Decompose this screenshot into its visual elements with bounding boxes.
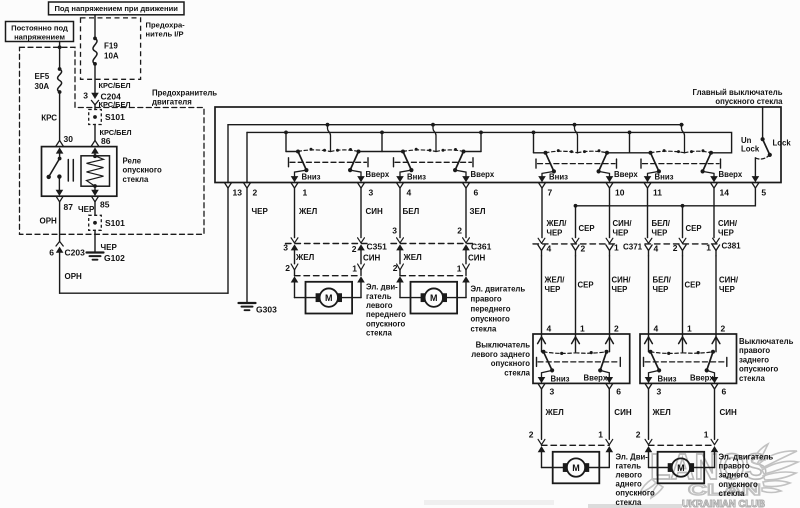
wire КРС/БЕЛ S101 to relay pin 86 <box>95 125 132 147</box>
svg-text:Эл. двигатель: Эл. двигатель <box>719 452 774 461</box>
label: выключатель левого заднего опускного стекла <box>471 341 530 378</box>
connector arrow relay pin 85 <box>91 196 109 209</box>
main switch pin 7 <box>538 183 552 198</box>
svg-text:10A: 10A <box>104 52 119 61</box>
main switch box: главный выключатель опускного стекла <box>215 107 781 183</box>
svg-text:опускного: опускного <box>739 365 778 374</box>
svg-text:левого: левого <box>616 471 643 480</box>
svg-text:S101: S101 <box>105 218 125 228</box>
fuse F19 10A <box>93 37 97 66</box>
svg-text:ОРН: ОРН <box>65 272 83 281</box>
connector C204 pin 3 <box>83 91 121 105</box>
connector C381 <box>645 238 741 256</box>
svg-text:Выключатель: Выключатель <box>739 337 794 346</box>
lock switch <box>752 107 772 182</box>
svg-text:ЧЕР: ЧЕР <box>547 229 563 238</box>
svg-text:двигателя: двигателя <box>152 98 192 107</box>
svg-text:стекла: стекла <box>504 368 530 377</box>
svg-text:1: 1 <box>704 430 709 440</box>
svg-text:гатель: гатель <box>616 461 642 470</box>
svg-text:правого: правого <box>739 346 770 355</box>
svg-text:СИН: СИН <box>363 254 381 263</box>
ground G303 <box>239 303 278 315</box>
svg-text:C351: C351 <box>367 241 388 251</box>
wire ЖЕЛ pin 1 to C351 <box>295 188 318 237</box>
wire СИН/ЧЕР pin 10 to C371 <box>610 188 633 237</box>
svg-text:Вниз: Вниз <box>658 375 677 384</box>
watermark club logo <box>424 444 798 508</box>
ground stub row3 between switch C and D contacts <box>607 132 651 152</box>
label: Предохранитель двигателя <box>152 88 217 106</box>
svg-text:86: 86 <box>101 136 111 146</box>
svg-text:ЗЕЛ: ЗЕЛ <box>470 207 486 216</box>
main switch pin 3 <box>357 183 373 198</box>
svg-text:10: 10 <box>615 188 625 198</box>
ground G102 <box>87 253 126 264</box>
svg-text:Предохранитель: Предохранитель <box>152 88 217 97</box>
relay coil <box>81 147 110 196</box>
svg-text:стекла: стекла <box>739 374 765 383</box>
left front motor connector pins 2/1 <box>285 263 365 282</box>
wire БЕЛ/ЧЕР pin 11 to C381 <box>648 188 671 237</box>
svg-text:стекла: стекла <box>719 489 745 498</box>
svg-text:C381: C381 <box>722 241 742 250</box>
label Un Lock <box>741 136 760 153</box>
svg-text:КРС/БЕЛ: КРС/БЕЛ <box>99 81 131 90</box>
svg-text:87: 87 <box>64 202 74 212</box>
main switch pin 11 <box>644 183 662 198</box>
svg-text:СИН: СИН <box>720 408 738 417</box>
label Lock <box>773 138 792 147</box>
label box: Постоянно под напряжением <box>6 22 74 42</box>
wire ЖЕЛ/ЧЕР pin 7 to C371 <box>542 188 567 237</box>
ground stub row3 to switch B right contact <box>464 132 482 151</box>
svg-text:ЧЕР: ЧЕР <box>652 229 668 238</box>
motor M left front: эл. двигатель левого переднего опускного стекла <box>295 282 362 314</box>
svg-text:СИН/: СИН/ <box>719 275 739 284</box>
wire pin 13 inside box <box>227 125 229 183</box>
svg-text:БЕЛ: БЕЛ <box>403 207 420 216</box>
main switch pin 14 <box>710 183 729 198</box>
wire ЧЕР splice S101 lower from relay 85 <box>94 202 96 216</box>
svg-text:СИН: СИН <box>468 254 486 263</box>
svg-text:СИН: СИН <box>366 207 384 216</box>
svg-text:Вверх: Вверх <box>471 170 495 179</box>
wire ЗЕЛ pin 6 to C361 <box>466 188 486 237</box>
window switch unit D (right rear control, pins 11/14) <box>641 125 743 183</box>
svg-text:13: 13 <box>233 188 243 198</box>
svg-text:30A: 30A <box>35 82 50 91</box>
svg-text:F19: F19 <box>104 42 118 51</box>
svg-text:4: 4 <box>654 323 659 333</box>
svg-text:C371: C371 <box>623 242 643 251</box>
svg-text:Вниз: Вниз <box>407 173 426 182</box>
svg-text:14: 14 <box>720 188 730 198</box>
svg-text:Вверх: Вверх <box>690 374 714 383</box>
wire СЕР left to C371 <box>576 206 595 238</box>
svg-text:заднего: заднего <box>719 471 749 480</box>
svg-text:4: 4 <box>547 323 552 333</box>
label ЧЕР at relay pin 85 <box>78 205 95 214</box>
svg-text:нитель I/P: нитель I/P <box>146 29 184 38</box>
svg-text:опускного: опускного <box>491 359 530 368</box>
main switch pin 2 <box>243 183 257 198</box>
svg-text:стекла: стекла <box>616 498 642 507</box>
svg-text:Выключатель: Выключатель <box>476 341 531 350</box>
wire ЧЕР S101 to ground G102 <box>95 230 117 252</box>
svg-text:2: 2 <box>253 188 258 198</box>
motor M left rear: эл. двигатель левого заднего опускного стекла <box>542 452 610 484</box>
svg-text:G303: G303 <box>256 305 277 315</box>
svg-text:2: 2 <box>721 323 726 333</box>
label EF5 30A <box>35 72 50 91</box>
svg-text:2: 2 <box>352 244 357 254</box>
left rear window switch: выключатель левого заднего опускного стекла <box>533 323 630 396</box>
svg-text:Эл. дви-: Эл. дви- <box>366 283 398 292</box>
svg-text:11: 11 <box>653 188 662 198</box>
svg-text:Lock: Lock <box>773 138 792 147</box>
svg-text:6: 6 <box>616 387 621 397</box>
motor M right front: эл. двигатель правого переднего опускного стекла <box>400 282 466 314</box>
main switch pin 5 <box>752 183 767 198</box>
svg-text:3: 3 <box>83 91 88 101</box>
svg-text:СЕР: СЕР <box>579 224 595 233</box>
wire from ignition feed to fuse F19 <box>94 15 96 39</box>
svg-text:ЖЕЛ: ЖЕЛ <box>403 253 423 262</box>
svg-text:ЧЕР: ЧЕР <box>101 243 118 252</box>
connector C351 <box>283 238 387 254</box>
connector C361 <box>391 226 492 252</box>
window switch unit B (right front, pins 4/6) <box>394 125 495 183</box>
svg-text:опускного: опускного <box>471 314 510 323</box>
svg-text:КРС: КРС <box>41 114 57 123</box>
wire СИН pin 3 to C351 <box>361 188 383 237</box>
svg-text:ЧЕР: ЧЕР <box>719 285 735 294</box>
svg-text:СИН/: СИН/ <box>718 219 738 228</box>
svg-text:4: 4 <box>407 188 412 198</box>
dashed box: предохранитель I/P <box>81 18 141 79</box>
ground stub row3 to switch A left contact <box>286 132 298 151</box>
main switch pin 6 <box>462 183 478 198</box>
wire КРС/БЕЛ F19 to C204 <box>95 64 131 93</box>
ground stub row3 between switch A and B contacts <box>359 132 404 151</box>
svg-text:ЖЕЛ: ЖЕЛ <box>652 408 672 417</box>
svg-text:опускного: опускного <box>123 166 162 175</box>
wire СИН/ЧЕР pin 14 to C381 <box>714 188 738 237</box>
wire КРС EF5 to relay pin 30 <box>41 92 59 140</box>
svg-text:аднего: аднего <box>616 480 642 489</box>
svg-text:заднего: заднего <box>739 355 769 364</box>
bus row 2 (power from pin 13) <box>228 123 683 127</box>
svg-text:ЖЕЛ/: ЖЕЛ/ <box>544 275 566 284</box>
svg-text:опускного: опускного <box>719 480 758 489</box>
wires ЖЕЛ and СИН C351 to motor connector <box>295 250 381 263</box>
svg-text:Вниз: Вниз <box>655 173 674 182</box>
wire pin 5 to gray ground bus <box>574 188 756 208</box>
svg-text:Вниз: Вниз <box>551 375 570 384</box>
svg-text:Предохра-: Предохра- <box>146 20 186 29</box>
svg-text:СЕР: СЕР <box>685 280 701 289</box>
svg-text:6: 6 <box>474 188 479 198</box>
svg-text:7: 7 <box>548 188 553 198</box>
svg-text:3: 3 <box>283 243 288 253</box>
svg-text:ЧЕР: ЧЕР <box>718 229 734 238</box>
svg-text:Вверх: Вверх <box>719 170 743 179</box>
svg-text:переднего: переднего <box>471 304 511 313</box>
svg-text:2: 2 <box>636 430 641 440</box>
svg-text:ЖЕЛ: ЖЕЛ <box>298 207 318 216</box>
svg-text:левого заднего: левого заднего <box>471 350 530 359</box>
main switch pin 1 <box>291 183 308 198</box>
svg-text:БЕЛ/: БЕЛ/ <box>653 275 672 284</box>
svg-text:S101: S101 <box>105 112 125 122</box>
label: эл. двигатель левого заднего опускного стекла <box>616 452 655 507</box>
svg-text:M: M <box>677 463 685 473</box>
svg-text:Вверх: Вверх <box>366 170 390 179</box>
relay box: реле опускного стекла <box>42 147 117 197</box>
window switch unit A (left front, pins 1/3) <box>289 125 390 183</box>
motor M right rear: эл. двигатель правого заднего опускного стекла <box>649 452 715 484</box>
bus row 3 (ground from pin 2) <box>247 131 732 153</box>
main switch pin 13 <box>224 183 242 198</box>
svg-text:2: 2 <box>673 243 678 253</box>
svg-text:1: 1 <box>687 323 692 333</box>
main switch pin 4 <box>396 183 411 198</box>
label: Предохра-нитель I/P <box>146 20 186 38</box>
connector arrow at relay pin 86 <box>91 140 98 146</box>
svg-text:1: 1 <box>352 264 357 274</box>
svg-text:СИН/: СИН/ <box>613 219 633 228</box>
wire ОРН relay 87 to C203 <box>40 202 60 241</box>
wires C381 to right rear switch <box>649 256 739 334</box>
svg-text:1: 1 <box>457 264 462 274</box>
svg-text:СЕР: СЕР <box>686 224 702 233</box>
wire pin 2 inside box <box>246 132 248 182</box>
svg-text:C203: C203 <box>65 248 86 258</box>
right front motor connector pins 2/1 <box>393 263 470 282</box>
svg-text:стекла: стекла <box>123 175 149 184</box>
wire КРС/БЕЛ C204 to splice S101 <box>95 100 131 110</box>
svg-text:6: 6 <box>722 387 727 397</box>
svg-text:опускного: опускного <box>366 319 405 328</box>
svg-text:левого: левого <box>366 301 393 310</box>
svg-text:Эл. Дви-: Эл. Дви- <box>616 452 649 461</box>
window switch unit C (left rear control, pins 7/10) <box>536 125 638 183</box>
relay contact arm (pin 30 to pin 87) <box>47 147 64 196</box>
wire ОРН C203 down and right to main switch pin 13 <box>60 188 228 293</box>
svg-text:5: 5 <box>761 188 766 198</box>
svg-text:1: 1 <box>580 323 585 333</box>
svg-text:СИН/: СИН/ <box>612 275 632 284</box>
svg-text:Постоянно под: Постоянно под <box>11 23 68 32</box>
svg-text:ЖЕЛ: ЖЕЛ <box>295 253 315 262</box>
svg-text:Под напряжением при движении: Под напряжением при движении <box>54 4 178 13</box>
wire ЧЕР pin 2 to ground G303 <box>247 188 268 303</box>
svg-text:ОРН: ОРН <box>40 217 58 226</box>
svg-text:6: 6 <box>49 247 54 257</box>
main switch pin 10 <box>606 183 625 198</box>
svg-text:30: 30 <box>64 134 74 144</box>
svg-text:СИН: СИН <box>614 408 632 417</box>
wires left rear switch to left rear motor <box>529 389 632 452</box>
svg-text:M: M <box>572 463 580 473</box>
svg-text:3: 3 <box>369 188 374 198</box>
svg-text:3: 3 <box>550 387 555 397</box>
svg-text:4: 4 <box>654 244 659 254</box>
svg-text:правого: правого <box>719 462 750 471</box>
dashed region: предохранитель двигателя <box>20 47 205 234</box>
svg-text:Вниз: Вниз <box>549 173 568 182</box>
svg-text:ЖЕЛ: ЖЕЛ <box>545 408 565 417</box>
splice S101 lower <box>89 215 125 230</box>
wire СЕР right to C381 <box>683 206 702 238</box>
label: эл. двигатель левого переднего опускного стекла <box>366 283 406 338</box>
connector C371 <box>533 238 643 256</box>
svg-text:правого: правого <box>471 294 502 303</box>
svg-text:2: 2 <box>457 226 462 236</box>
svg-text:ЧЕР: ЧЕР <box>653 285 669 294</box>
svg-text:Вниз: Вниз <box>302 173 321 182</box>
connector arrow at relay pin 30 <box>56 134 73 146</box>
connector C203 pin 6 <box>49 241 85 257</box>
svg-text:Вверх: Вверх <box>614 170 638 179</box>
svg-text:ЧЕР: ЧЕР <box>613 229 629 238</box>
svg-text:ЧЕР: ЧЕР <box>78 205 95 214</box>
svg-text:Lock: Lock <box>741 145 760 154</box>
splice S101 upper <box>89 110 125 125</box>
svg-text:напряжением: напряжением <box>14 32 65 41</box>
svg-text:ЧЕР: ЧЕР <box>545 285 561 294</box>
svg-text:СЕР: СЕР <box>578 280 594 289</box>
svg-text:Главный выключатель: Главный выключатель <box>693 88 783 97</box>
svg-text:ЖЕЛ/: ЖЕЛ/ <box>546 219 568 228</box>
svg-text:ЧЕР: ЧЕР <box>612 285 628 294</box>
svg-text:Вверх: Вверх <box>584 374 608 383</box>
svg-text:4: 4 <box>547 244 552 254</box>
svg-text:стекла: стекла <box>471 324 497 333</box>
wires C371 to left rear switch <box>542 256 632 334</box>
svg-text:EF5: EF5 <box>35 72 50 81</box>
right rear window switch: выключатель правого заднего опускного стекла <box>640 323 737 396</box>
label: эл. двигатель правого переднего опускного стекла <box>471 284 526 333</box>
svg-text:2: 2 <box>581 244 586 254</box>
svg-text:1: 1 <box>303 188 308 198</box>
label: эл. двигатель правого заднего опускного стекла <box>719 452 774 498</box>
svg-text:переднего: переднего <box>366 310 406 319</box>
label box: Под напряжением при движении <box>49 2 185 15</box>
svg-text:1: 1 <box>706 242 711 252</box>
svg-text:1: 1 <box>598 430 603 440</box>
svg-text:M: M <box>430 293 438 303</box>
svg-text:БЕЛ/: БЕЛ/ <box>652 219 671 228</box>
svg-text:3: 3 <box>657 387 662 397</box>
wires right rear switch to right rear motor <box>636 389 737 452</box>
svg-text:опускного: опускного <box>616 489 655 498</box>
svg-text:2: 2 <box>529 430 534 440</box>
svg-text:1: 1 <box>614 242 619 252</box>
label: Реле опускного стекла <box>123 156 162 184</box>
label: Главный выключатель опускного стекла <box>693 88 784 106</box>
svg-text:ЧЕР: ЧЕР <box>252 207 269 216</box>
svg-text:UKRAINIAN CLUB: UKRAINIAN CLUB <box>682 498 765 508</box>
svg-text:M: M <box>325 293 333 303</box>
svg-text:G102: G102 <box>104 253 125 263</box>
relay actuator bars <box>68 160 73 182</box>
svg-text:Реле: Реле <box>123 156 142 165</box>
wires ЖЕЛ and СИН C361 to motor connector <box>400 250 486 263</box>
svg-text:2: 2 <box>285 263 290 273</box>
svg-text:C361: C361 <box>471 241 492 251</box>
connector arrow relay pin 87 <box>56 196 73 212</box>
svg-text:гатель: гатель <box>366 292 392 301</box>
svg-text:стекла: стекла <box>366 329 392 338</box>
ground stub row3 to switch C left contact <box>534 132 546 152</box>
svg-text:85: 85 <box>100 200 110 210</box>
label F19 10A <box>104 42 119 61</box>
fuse EF5 30A <box>58 67 62 94</box>
wire from battery feed box to fuse EF5 <box>58 42 62 70</box>
label: выключатель правого заднего опускного стекла <box>739 337 794 383</box>
svg-text:3: 3 <box>392 226 397 236</box>
svg-text:Эл. двигатель: Эл. двигатель <box>471 284 526 293</box>
svg-text:опускного стекла: опускного стекла <box>715 97 783 106</box>
svg-text:2: 2 <box>614 323 619 333</box>
wire БЕЛ pin 4 to C361 <box>400 188 420 237</box>
